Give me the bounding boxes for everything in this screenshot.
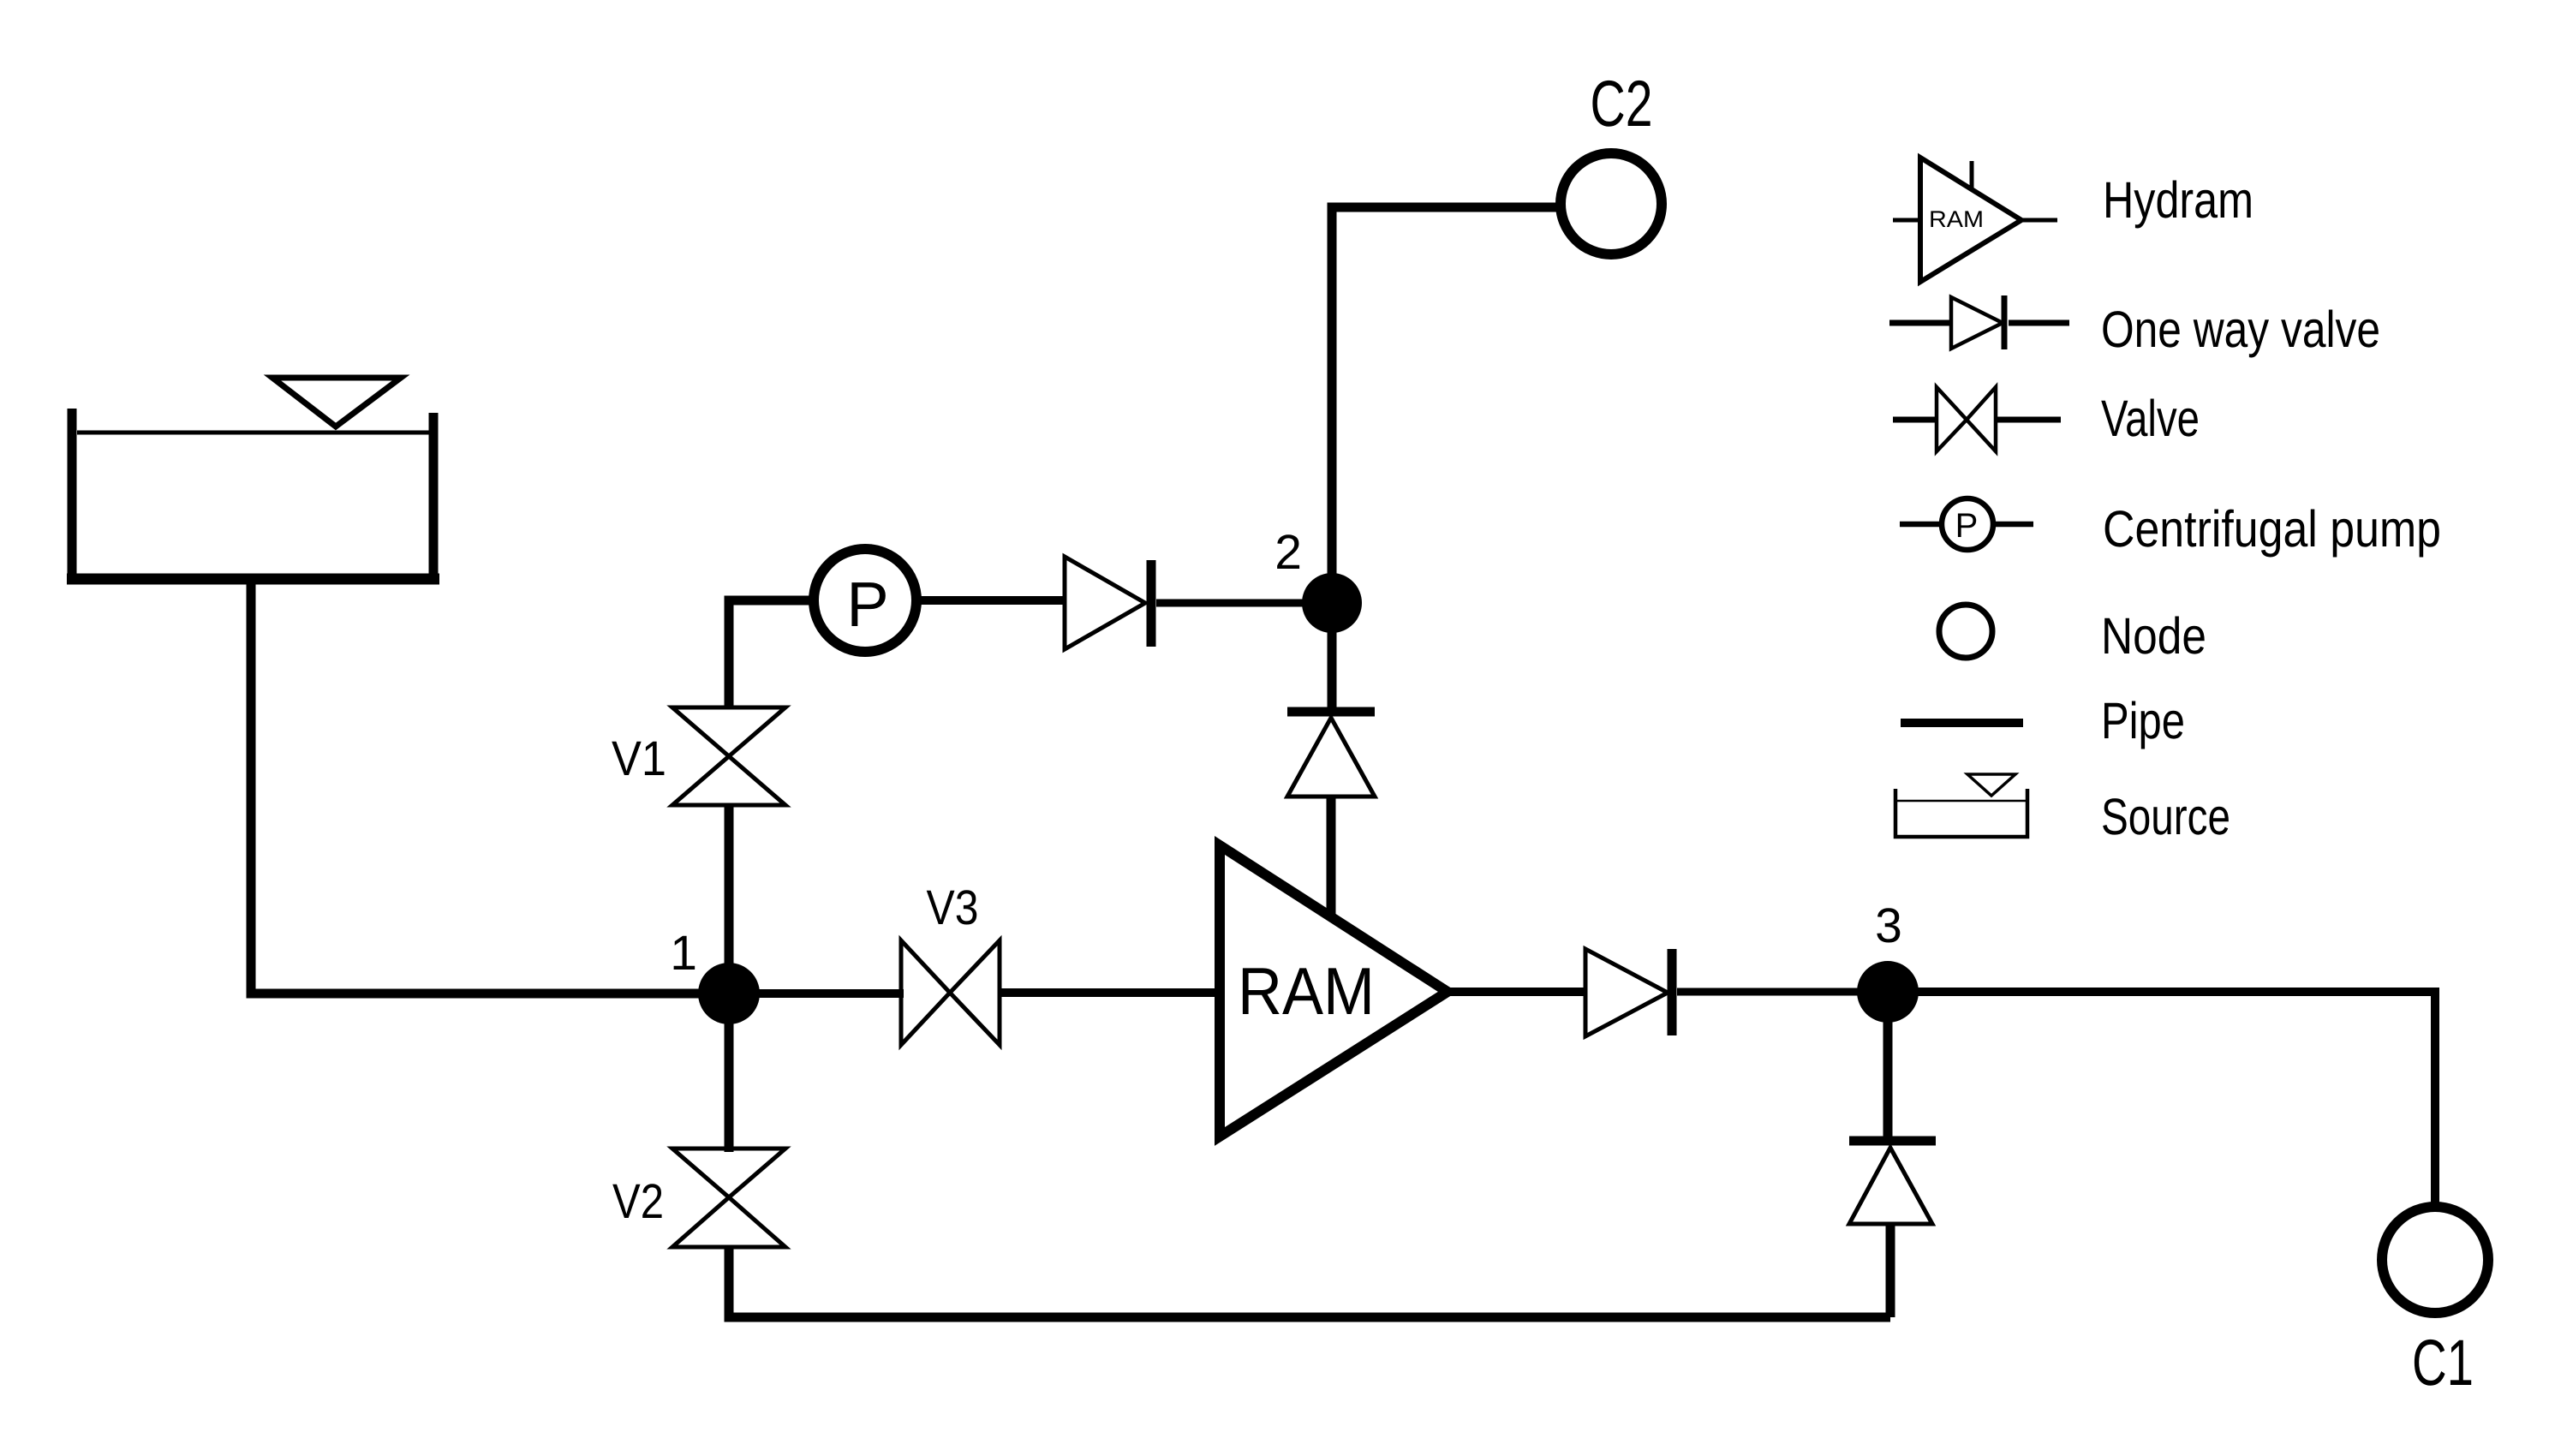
svg-text:Source: Source [2101,788,2230,845]
legend node circle [1939,605,1992,658]
legend pipe line [1901,719,2023,727]
legend valve line [1893,417,2061,423]
legend valve bowtie [1937,387,1996,451]
wire RAM to one-way valve CV3 [1444,988,1587,996]
legend centrifugal pump line [1900,522,2033,528]
wire V3 to RAM [1000,988,1216,997]
svg-text:2: 2 [1274,525,1302,580]
wire node 1 down to V2 [725,1019,734,1152]
svg-text:One way valve: One way valve [2101,301,2380,358]
valve V1 [672,707,785,805]
wire node 3 down to check valve CV4 [1883,1019,1893,1145]
wire pump to one-way valve [916,596,1065,605]
legend one-way valve bar [2002,295,2008,349]
wire tank to node 1 [251,579,702,994]
legend source water line [1895,800,2027,803]
one-way valve CV2 triangle [1287,718,1375,797]
svg-text:P: P [846,569,888,640]
source tank T1 water line [77,431,429,435]
hydram RAM triangle [1220,845,1448,1137]
svg-text:RAM: RAM [1238,953,1375,1029]
svg-text:V2: V2 [612,1174,664,1229]
legend one-way valve line [1889,320,2069,326]
source tank T1 water-level triangle [272,378,401,427]
one-way valve CV4 triangle [1849,1148,1932,1224]
legend hydram triangle [1920,158,2021,282]
wire CV1 to node 2 [1156,600,1310,607]
wire CV4 down to bottom pipe [1886,1224,1895,1317]
legend centrifugal pump circle [1942,498,1993,550]
source tank T1 left wall [68,409,77,579]
wire node 3 to C1 [1910,992,2435,1208]
source tank T1 bottom [67,574,439,585]
one-way valve CV1 triangle [1065,557,1145,649]
svg-text:Valve: Valve [2101,390,2200,447]
one-way valve CV4 bar [1849,1137,1936,1146]
wire node 1 to valve V3 [754,989,904,998]
node 3 [1857,961,1919,1023]
one-way valve CV3 bar [1668,949,1677,1035]
legend source tank [1895,789,2027,837]
svg-text:P: P [1955,507,1979,545]
consumer node C2 [1561,153,1662,254]
svg-text:RAM: RAM [1929,206,1984,232]
wire V1 up and corner to pump [729,600,819,707]
wire node 1 up to V1 [725,805,734,968]
node 1 [698,963,760,1024]
centrifugal pump P [814,549,916,652]
one-way valve CV2 bar [1287,707,1375,717]
wire CV2 to RAM [1327,797,1336,916]
svg-text:Hydram: Hydram [2103,171,2254,229]
one-way valve CV1 bar [1147,560,1156,647]
legend one-way valve triangle [1951,297,2003,349]
legend hydram left stub [1893,218,1920,223]
wire V2 down and bottom pipe to CV4 [729,1247,1890,1317]
svg-text:Centrifugal pump: Centrifugal pump [2103,500,2441,558]
svg-text:Node: Node [2101,607,2206,665]
wire node 2 up and corner to C2 [1332,207,1562,608]
svg-text:C1: C1 [2412,1327,2474,1399]
svg-text:Pipe: Pipe [2101,692,2185,749]
valve V2 [672,1149,785,1247]
svg-text:1: 1 [670,926,697,981]
wire node 2 down to check valve CV2 [1328,608,1337,716]
legend hydram right stub [2021,218,2057,223]
legend source triangle [1967,774,2015,796]
node 2 [1302,573,1362,633]
source tank T1 right wall [429,413,439,579]
consumer node C1 [2382,1207,2488,1313]
svg-text:3: 3 [1875,898,1902,953]
svg-text:V3: V3 [927,880,979,935]
valve V3 [901,940,1000,1045]
one-way valve CV3 triangle [1585,949,1668,1036]
legend hydram top tick [1970,161,1974,189]
wire CV3 to node 3 [1677,988,1867,996]
svg-text:C2: C2 [1591,68,1653,140]
svg-text:V1: V1 [612,731,666,786]
